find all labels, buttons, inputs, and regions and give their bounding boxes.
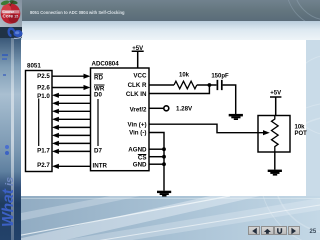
- svg-text:AGND: AGND: [128, 146, 147, 153]
- sidebar vertical text: [0, 140, 18, 240]
- svg-text:P2.7: P2.7: [37, 162, 50, 169]
- wire Vin(-) down: [149, 133, 164, 191]
- svg-text:CLK IN: CLK IN: [126, 91, 147, 98]
- svg-text:GND: GND: [133, 161, 147, 168]
- sidebar question mark glyph: [0, 26, 24, 41]
- svg-text:D7: D7: [94, 148, 102, 155]
- wire INTR to P2.7: [59, 165, 91, 167]
- navigation buttons: [248, 226, 260, 236]
- wire capacitor to ground: [223, 85, 236, 114]
- wire P2.5 to RD: [52, 75, 84, 77]
- arrowhead into WR: [84, 85, 91, 90]
- wire AGND: [149, 148, 164, 150]
- overline for CS: [138, 154, 147, 156]
- sidebar small marks: [2, 54, 8, 56]
- junction dot AGND: [162, 147, 166, 151]
- wire CLK R to resistor: [149, 84, 174, 86]
- svg-text:CLK R: CLK R: [128, 82, 147, 89]
- wire D2: [59, 110, 91, 112]
- svg-text:10k: 10k: [295, 125, 306, 131]
- overline for RD: [94, 73, 103, 75]
- junction dot CS: [162, 155, 166, 159]
- wire D1: [59, 102, 91, 104]
- wire D4: [59, 126, 91, 128]
- bus range line inside 8051: [38, 99, 40, 147]
- light band under title bar: [22, 21, 320, 40]
- ground G2 under pot: [268, 170, 282, 172]
- wire resistor to node A: [197, 84, 217, 86]
- wire Vin(+) to pot wiper: [149, 124, 264, 133]
- svg-text:P1.0: P1.0: [37, 93, 50, 100]
- wire Vref/2 stub: [149, 107, 164, 109]
- arrowhead into RD: [84, 74, 91, 79]
- svg-text:+5V: +5V: [132, 46, 143, 52]
- svg-text:P1.7: P1.7: [37, 148, 50, 155]
- ground G3 under GND line: [157, 191, 171, 193]
- resistor R1 10k: [174, 81, 197, 89]
- wire CLK IN to node A: [149, 85, 209, 94]
- wire D0 to P1.0: [59, 94, 91, 96]
- svg-text:10k: 10k: [179, 73, 190, 79]
- arrowheads into P1.0-P1.7: [52, 93, 59, 98]
- wire CS: [149, 156, 164, 158]
- wire D3: [59, 118, 91, 120]
- overline for WR: [94, 84, 105, 86]
- svg-text:Vin (-): Vin (-): [129, 130, 146, 137]
- svg-text:Vin (+): Vin (+): [128, 121, 147, 128]
- svg-text:P2.6: P2.6: [37, 84, 50, 91]
- svg-text:INTR: INTR: [93, 163, 108, 170]
- node A junction dot: [208, 83, 212, 87]
- svg-text:Vref/2: Vref/2: [130, 106, 147, 113]
- svg-text:POT: POT: [295, 131, 308, 137]
- +5V supply wire to pot: [270, 97, 281, 116]
- wire P2.6 to WR: [52, 87, 84, 89]
- svg-text:P2.5: P2.5: [37, 73, 50, 80]
- svg-text:VCC: VCC: [133, 73, 147, 80]
- +5V supply wire to VCC: [132, 51, 144, 68]
- wire D6: [59, 142, 91, 144]
- Vref/2 open terminal: [164, 106, 169, 111]
- wire GND: [149, 163, 164, 165]
- potentiometer R2 zigzag: [272, 116, 279, 153]
- microcontroller U1 8051 box: [26, 71, 53, 172]
- top title bar: [0, 0, 320, 21]
- svg-text:D0: D0: [94, 92, 102, 99]
- svg-text:1.28V: 1.28V: [176, 106, 193, 113]
- ADC U2 ADC0804 box: [91, 68, 150, 171]
- wire D7 to P1.7: [59, 150, 91, 152]
- arrowhead pot wiper: [263, 130, 270, 135]
- arrowhead into P2.7 from INTR: [52, 164, 59, 169]
- svg-text:RD: RD: [94, 74, 103, 81]
- wire D5: [59, 134, 91, 136]
- page number: [310, 229, 317, 235]
- svg-text:CS: CS: [138, 154, 147, 161]
- wire pot to ground: [274, 152, 276, 170]
- bus range line inside ADC0804: [97, 99, 99, 146]
- svg-text:150pF: 150pF: [211, 73, 229, 79]
- svg-text:8051: 8051: [27, 62, 41, 69]
- navy block under logo: [0, 27, 22, 38]
- logo block: [0, 0, 22, 27]
- svg-text:+5V: +5V: [270, 91, 281, 97]
- capacitor C1 150pF plates: [217, 80, 221, 90]
- slide title text: [30, 10, 230, 16]
- junction dot GND: [162, 162, 166, 166]
- white content panel: [21, 40, 306, 196]
- potentiometer R2 box: [258, 116, 290, 153]
- ground G1 under capacitor: [229, 114, 243, 117]
- svg-text:ADC0804: ADC0804: [92, 60, 120, 67]
- left sidebar: [0, 38, 21, 240]
